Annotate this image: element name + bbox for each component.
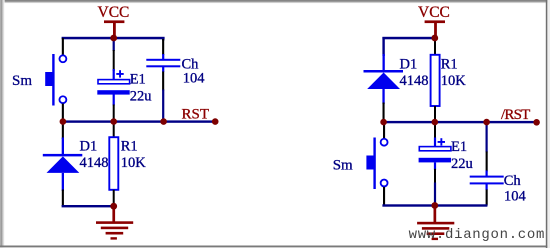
wire /RST rail: [382, 121, 537, 123]
node mid rail junction at switch: [60, 118, 67, 125]
svg-text:Sm: Sm: [12, 73, 32, 89]
svg-text:Sm: Sm: [333, 157, 353, 173]
svg-text:10K: 10K: [121, 155, 147, 171]
power VCC right: [418, 4, 450, 38]
node ground junction right: [431, 202, 438, 209]
diode D1 right: [364, 54, 404, 122]
svg-text:4148: 4148: [400, 73, 429, 89]
diode D1 left: [43, 123, 83, 206]
svg-text:R1: R1: [441, 57, 458, 73]
svg-text:/RST: /RST: [501, 107, 530, 123]
power VCC left: [98, 4, 130, 38]
resistor R1 left: [109, 123, 118, 206]
wire top rail left: [62, 37, 165, 40]
ground right: [417, 206, 454, 241]
node mid rail junction at E1/R1: [110, 118, 117, 125]
wire mid rail left: [62, 120, 216, 122]
wire top rail right: [382, 37, 436, 40]
svg-text:22u: 22u: [451, 156, 473, 172]
node /RST junction at D1/switch: [380, 119, 387, 126]
svg-text:104: 104: [504, 188, 527, 204]
node VCC junction left: [110, 35, 117, 42]
node /RST junction at Ch: [483, 119, 490, 126]
wire bottom rail left: [62, 205, 115, 207]
node mid rail junction at Ch: [160, 118, 167, 125]
svg-text:VCC: VCC: [418, 4, 450, 21]
svg-text:VCC: VCC: [98, 4, 130, 21]
svg-text:Ch: Ch: [504, 173, 522, 189]
wire ground rail right: [382, 204, 487, 206]
svg-text:4148: 4148: [80, 155, 109, 171]
capacitor E1 left: [97, 50, 129, 122]
svg-text:E1: E1: [451, 139, 467, 155]
node ground junction left: [110, 203, 117, 210]
svg-text:R1: R1: [121, 139, 138, 155]
wire VCC stub down left: [113, 38, 115, 51]
node /RST junction at R1/E1: [432, 119, 439, 126]
capacitor Ch right: [470, 122, 504, 205]
svg-text:D1: D1: [80, 139, 98, 155]
svg-text:10K: 10K: [441, 73, 467, 89]
svg-text:22u: 22u: [130, 88, 152, 104]
switch Sm right: [366, 123, 387, 206]
switch Sm left: [45, 38, 66, 122]
svg-text:D1: D1: [400, 57, 418, 73]
svg-text:104: 104: [183, 71, 206, 87]
resistor R1 right: [431, 38, 440, 122]
svg-text:RST: RST: [182, 107, 210, 123]
svg-text:E1: E1: [130, 72, 146, 88]
node /RST terminal dot: [533, 119, 540, 126]
capacitor Ch left: [146, 37, 180, 122]
node VCC junction right: [431, 35, 438, 42]
node RST terminal dot: [212, 118, 219, 125]
capacitor E1 right: [419, 124, 451, 205]
svg-text:www.diangon.com: www.diangon.com: [409, 227, 546, 243]
wire corner stub down to D1 right: [382, 37, 384, 56]
ground left: [96, 206, 133, 240]
